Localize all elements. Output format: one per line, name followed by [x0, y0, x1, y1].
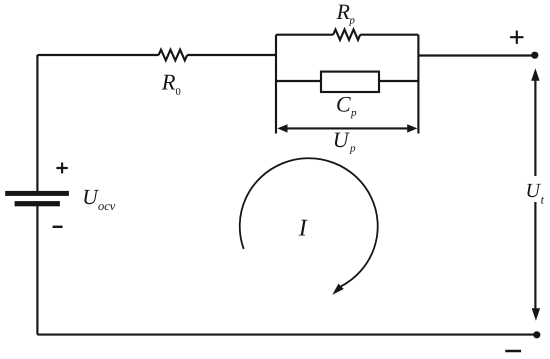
svg-text:I: I	[298, 216, 308, 242]
svg-text:p: p	[348, 15, 355, 27]
svg-text:C: C	[336, 92, 351, 117]
svg-text:0: 0	[176, 87, 181, 98]
svg-text:U: U	[82, 185, 99, 209]
svg-text:p: p	[350, 107, 357, 119]
svg-text:U: U	[526, 180, 542, 202]
svg-text:t: t	[541, 192, 545, 206]
svg-text:U: U	[333, 127, 351, 152]
svg-text:ocv: ocv	[98, 199, 116, 213]
svg-text:R: R	[161, 70, 176, 95]
svg-text:p: p	[349, 143, 356, 155]
svg-text:R: R	[336, 0, 351, 24]
